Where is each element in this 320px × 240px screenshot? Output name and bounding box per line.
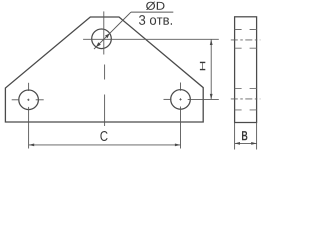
plate outline (front view) — [5, 17, 203, 122]
B dim arrow left — [235, 142, 240, 145]
C dim arrow left — [29, 144, 35, 147]
label ØD — [146, 2, 165, 10]
H dim arrow down — [210, 94, 213, 100]
B dimension line — [235, 142, 257, 144]
H dimension line — [210, 39, 212, 99]
B extension line left — [234, 123, 236, 150]
top hole vertical centerline — [103, 11, 105, 54]
label H (rotated) — [200, 62, 205, 71]
hidden line bottom of lower holes — [235, 109, 257, 111]
diameter leader diagonal through top hole — [94, 12, 131, 49]
bottom-right hole horizontal centerline / H extension line — [164, 98, 219, 100]
leader arrow upper-right — [105, 33, 110, 38]
label B — [242, 131, 247, 140]
hidden line bottom of upper hole — [235, 47, 257, 49]
leader shelf — [131, 11, 173, 13]
hidden line top of lower holes — [235, 87, 257, 89]
C dim arrow right — [175, 144, 181, 147]
hidden line top of upper hole — [235, 29, 257, 31]
C dimension line — [29, 144, 181, 146]
label C — [100, 131, 107, 141]
B dim arrow right — [251, 142, 256, 145]
label 3 отв. — [139, 15, 172, 25]
leader arrow lower-left — [96, 42, 101, 47]
top hole circle — [92, 29, 112, 49]
bottom-left hole horizontal centerline — [12, 99, 44, 101]
bottom-left hole vertical centerline / C extension line — [28, 83, 30, 149]
bottom-left hole circle — [19, 90, 39, 110]
H dim arrow up — [210, 40, 213, 46]
bottom-right hole vertical centerline / C extension line — [180, 83, 182, 149]
top hole horizontal centerline / H extension line — [83, 38, 219, 40]
centerline upper hole (side view) — [231, 39, 260, 41]
symmetry axis dash — [104, 65, 106, 80]
symmetry axis line — [104, 95, 106, 127]
side view rectangle — [235, 17, 257, 123]
centerline lower holes (side view) — [231, 98, 260, 100]
B extension line right — [256, 123, 258, 150]
bottom-right hole circle — [171, 90, 191, 110]
